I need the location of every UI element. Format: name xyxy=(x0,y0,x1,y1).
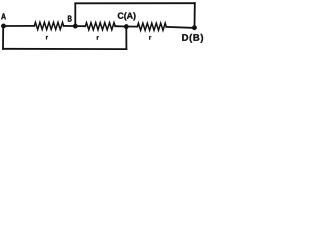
node D xyxy=(192,25,197,30)
value r of R3 xyxy=(149,36,151,39)
wire bottom rail A to C xyxy=(3,48,126,50)
resistor R3 xyxy=(137,23,166,30)
wire C to R3 xyxy=(126,26,137,28)
label D(B) xyxy=(182,34,203,43)
wire B to R2 xyxy=(75,25,85,27)
label A xyxy=(1,13,6,19)
node B xyxy=(73,24,78,29)
wire A to R1 xyxy=(4,25,35,27)
node C xyxy=(124,24,129,29)
wire top rail down to D xyxy=(194,3,196,28)
node A xyxy=(1,24,6,29)
resistor R2 xyxy=(85,23,115,30)
wire R3 to D xyxy=(166,27,194,28)
wire top rail B to D xyxy=(75,2,195,4)
value r of R1 xyxy=(46,36,48,39)
label B xyxy=(68,16,72,22)
resistor R1 xyxy=(34,22,63,29)
wire bottom rail up to C xyxy=(125,27,127,50)
wire R2 to C xyxy=(115,25,126,27)
value r of R2 xyxy=(97,36,99,39)
label C(A) xyxy=(118,12,136,20)
wire R1 to B xyxy=(64,25,76,27)
wire B to top rail xyxy=(74,3,76,26)
wire A down to bottom rail xyxy=(2,26,4,49)
